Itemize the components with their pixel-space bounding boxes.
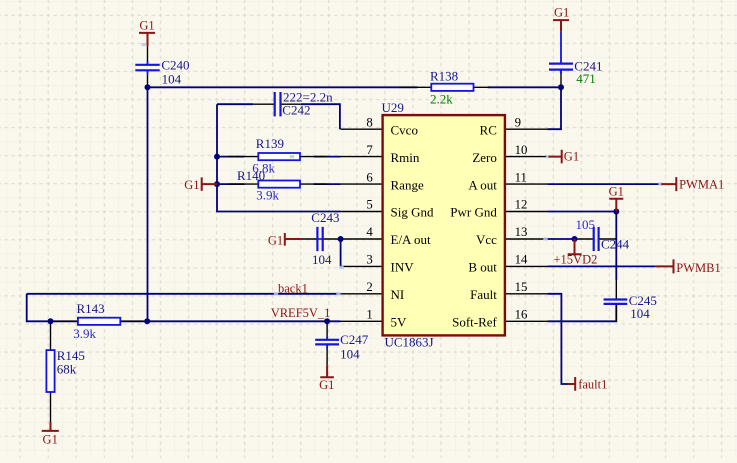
wire C243 junction to pin 4 bbox=[340, 238, 343, 240]
svg-text:5: 5 bbox=[366, 198, 372, 212]
svg-text:Range: Range bbox=[391, 177, 424, 192]
svg-text:4: 4 bbox=[366, 225, 373, 239]
capacitor C242 plates bbox=[275, 92, 281, 116]
wire pin 15 to fault1 bbox=[547, 294, 568, 384]
wire C243 junction down to pin 3 bbox=[340, 239, 342, 266]
svg-text:+15VD2: +15VD2 bbox=[554, 252, 598, 266]
lead C241 to junction bbox=[560, 70, 562, 88]
svg-text:C243: C243 bbox=[311, 210, 339, 225]
pin 2 stub U29 left bbox=[341, 293, 383, 295]
capacitor C247 plates bbox=[315, 340, 339, 345]
leads C244 bbox=[575, 238, 617, 240]
power port G1 (bottom left) bar bbox=[42, 422, 59, 431]
svg-text:10: 10 bbox=[515, 143, 528, 157]
port PWMB1 bar bbox=[656, 259, 674, 273]
svg-text:6: 6 bbox=[366, 170, 373, 184]
svg-text:R138: R138 bbox=[430, 69, 458, 84]
svg-text:G1: G1 bbox=[564, 149, 579, 163]
leads R145 bbox=[50, 321, 52, 422]
svg-text:U29: U29 bbox=[382, 100, 404, 115]
capacitor C244 plates bbox=[594, 227, 599, 251]
leads C242 bbox=[253, 103, 301, 105]
svg-text:16: 16 bbox=[515, 308, 528, 322]
svg-text:INV: INV bbox=[391, 260, 415, 275]
resistor R138 body bbox=[431, 84, 473, 91]
svg-text:G1: G1 bbox=[184, 178, 199, 192]
svg-text:Cvco: Cvco bbox=[391, 122, 418, 137]
capacitor C245 plates bbox=[604, 300, 628, 304]
leads C245 bbox=[615, 280, 617, 321]
resistor R139 body bbox=[258, 153, 300, 160]
svg-text:Rmin: Rmin bbox=[391, 150, 420, 165]
junction node C241/RC bbox=[558, 84, 564, 90]
power port G1 (Range row) bar bbox=[202, 177, 217, 191]
svg-text:C244: C244 bbox=[601, 237, 630, 252]
pin 14 stub U29 right bbox=[505, 265, 548, 267]
power port G1 (Pwr Gnd) bar bbox=[609, 199, 623, 212]
wire pin 16 wire up to C245 bbox=[547, 304, 616, 322]
svg-text:68k: 68k bbox=[57, 362, 77, 377]
svg-text:5V: 5V bbox=[391, 315, 408, 330]
leads R143 bbox=[52, 320, 143, 322]
svg-text:NI: NI bbox=[391, 287, 405, 302]
power port G1 (C243) bar bbox=[285, 233, 301, 246]
svg-text:11: 11 bbox=[515, 170, 527, 184]
lead C240 to junction bbox=[147, 75, 149, 87]
svg-text:G1: G1 bbox=[43, 433, 58, 447]
resistor R145 body bbox=[46, 350, 54, 392]
svg-text:C242: C242 bbox=[282, 102, 310, 117]
pin 12 stub U29 right bbox=[505, 211, 548, 213]
wire left rail to pin 5 bbox=[217, 104, 341, 211]
svg-text:R139: R139 bbox=[256, 136, 284, 151]
svg-text:12: 12 bbox=[515, 198, 528, 212]
svg-text:C240: C240 bbox=[161, 57, 189, 72]
resistor R140 body bbox=[258, 181, 300, 188]
power port G1 (top right) bar bbox=[553, 20, 569, 32]
op-amp U29 body (UC1863J PWM controller) bbox=[383, 115, 505, 335]
svg-text:G1: G1 bbox=[139, 18, 154, 32]
leads C243 bbox=[301, 238, 341, 240]
wire pin 14 to PWMB1 bbox=[547, 265, 655, 267]
svg-text:E/A out: E/A out bbox=[391, 232, 431, 247]
pin 10 stub U29 right bbox=[505, 156, 548, 158]
lead G1 to C240 bbox=[147, 46, 149, 61]
power port G1 (top left) bar bbox=[139, 33, 155, 46]
pin 16 stub U29 right bbox=[505, 320, 548, 322]
pin 5 stub U29 left bbox=[341, 211, 383, 213]
svg-text:G1: G1 bbox=[268, 234, 283, 248]
wire VREF5V wire to pin 1 bbox=[51, 320, 341, 322]
svg-text:VREF5V_1: VREF5V_1 bbox=[271, 306, 331, 320]
pin 3 stub U29 left bbox=[341, 265, 383, 267]
svg-text:PWMA1: PWMA1 bbox=[679, 177, 724, 191]
capacitor C247 lead bbox=[326, 337, 328, 349]
port fault1 bar bbox=[568, 377, 575, 391]
wire pin 11 to PWMA1 bbox=[547, 183, 661, 185]
capacitor C241 plates bbox=[549, 64, 573, 70]
svg-text:3.9k: 3.9k bbox=[256, 188, 279, 203]
svg-text:Soft-Ref: Soft-Ref bbox=[452, 315, 497, 330]
wire top bus left of R138 bbox=[148, 86, 418, 88]
svg-text:back1: back1 bbox=[278, 281, 308, 295]
capacitor C243 plates bbox=[317, 227, 322, 251]
pin 13 stub U29 right bbox=[505, 238, 548, 240]
off-grid marker dots bbox=[274, 292, 278, 295]
svg-text:104: 104 bbox=[162, 71, 182, 86]
wire pin 13 to junction bbox=[547, 238, 574, 240]
svg-text:G1: G1 bbox=[554, 6, 569, 20]
pin 15 stub U29 right bbox=[505, 293, 548, 295]
svg-text:G1: G1 bbox=[609, 185, 624, 199]
svg-text:Fault: Fault bbox=[470, 287, 497, 302]
svg-text:9: 9 bbox=[515, 115, 521, 129]
svg-text:105: 105 bbox=[576, 217, 596, 232]
junction node PwrGnd/G1 bbox=[613, 209, 619, 215]
svg-text:UC1863J: UC1863J bbox=[385, 335, 434, 350]
pin 11 stub U29 right bbox=[505, 183, 548, 185]
capacitor C241 bbox=[560, 32, 562, 74]
svg-text:G1: G1 bbox=[319, 378, 334, 392]
junction node C240/top bus bbox=[145, 84, 151, 90]
svg-text:PWMB1: PWMB1 bbox=[676, 261, 720, 275]
wire long left vertical bbox=[147, 87, 149, 321]
power port G1 (Zero pin) bar bbox=[549, 150, 562, 164]
junction node C247/5V bbox=[324, 318, 330, 324]
wire rail to R140 bbox=[217, 183, 244, 185]
junction node Vcc/C244 bbox=[572, 236, 578, 242]
leads C247 bbox=[326, 321, 328, 365]
wire left corner down bbox=[27, 294, 51, 322]
pin 1 stub U29 left bbox=[341, 320, 383, 322]
svg-text:Sig Gnd: Sig Gnd bbox=[391, 205, 434, 220]
pin 6 stub U29 left bbox=[341, 183, 383, 185]
capacitor C240 bbox=[147, 61, 149, 75]
junction node rail/R139 bbox=[214, 154, 220, 160]
junction node C243/pin4 bbox=[338, 236, 344, 242]
svg-text:3.9k: 3.9k bbox=[73, 326, 96, 341]
svg-text:14: 14 bbox=[515, 253, 528, 267]
pin 4 stub U29 left bbox=[341, 238, 383, 240]
power port G1 (C247) bar bbox=[320, 365, 334, 377]
junction node vertical/VREF5V bbox=[144, 318, 150, 324]
power port +15VD2 bar bbox=[568, 239, 582, 254]
svg-text:Pwr Gnd: Pwr Gnd bbox=[450, 205, 497, 220]
port PWMA1 bar bbox=[661, 177, 676, 191]
junction node rail/R140 bbox=[214, 181, 220, 187]
wire C242 left wire bbox=[217, 103, 253, 105]
svg-text:2.2k: 2.2k bbox=[430, 92, 453, 107]
wire back1 wire to pin 2 bbox=[27, 293, 341, 295]
leads R138 bbox=[400, 86, 489, 88]
svg-text:104: 104 bbox=[312, 252, 332, 267]
svg-text:2: 2 bbox=[366, 280, 372, 294]
wire R139 to pin 7 bbox=[314, 156, 341, 158]
leads R139 bbox=[228, 156, 328, 158]
svg-text:104: 104 bbox=[630, 306, 650, 321]
svg-text:Vcc: Vcc bbox=[476, 232, 497, 247]
wire top bus right of R138 bbox=[488, 86, 561, 88]
wire pin 12 to G1 junction and down bbox=[547, 212, 616, 281]
wire rail to R139 bbox=[217, 156, 244, 158]
pin 8 stub U29 left bbox=[341, 128, 383, 130]
pin 7 stub U29 left bbox=[341, 156, 383, 158]
svg-text:1: 1 bbox=[366, 308, 372, 322]
svg-text:C247: C247 bbox=[340, 332, 369, 347]
svg-text:15: 15 bbox=[515, 280, 528, 294]
svg-text:fault1: fault1 bbox=[578, 378, 607, 392]
svg-text:104: 104 bbox=[340, 347, 360, 362]
wire R140 to pin 6 bbox=[314, 183, 341, 185]
svg-text:R143: R143 bbox=[77, 301, 105, 316]
wire C242 right wire to pin 8 bbox=[301, 104, 340, 129]
resistor R143 body bbox=[78, 318, 120, 325]
svg-text:8: 8 bbox=[366, 115, 372, 129]
svg-text:Zero: Zero bbox=[472, 150, 497, 165]
leads R140 bbox=[228, 183, 328, 185]
svg-text:R140: R140 bbox=[237, 168, 265, 183]
svg-text:A out: A out bbox=[468, 177, 497, 192]
capacitor C240 plates bbox=[135, 65, 159, 71]
svg-text:RC: RC bbox=[480, 122, 497, 137]
svg-text:13: 13 bbox=[515, 225, 528, 239]
svg-text:B out: B out bbox=[468, 260, 497, 275]
junction node R143/R145 bbox=[48, 318, 54, 324]
pin 9 stub U29 right bbox=[505, 128, 548, 130]
wire C241 junction down to pin 9 bbox=[547, 87, 561, 129]
svg-text:7: 7 bbox=[366, 143, 373, 157]
svg-text:3: 3 bbox=[366, 253, 372, 267]
svg-text:471: 471 bbox=[576, 71, 596, 86]
